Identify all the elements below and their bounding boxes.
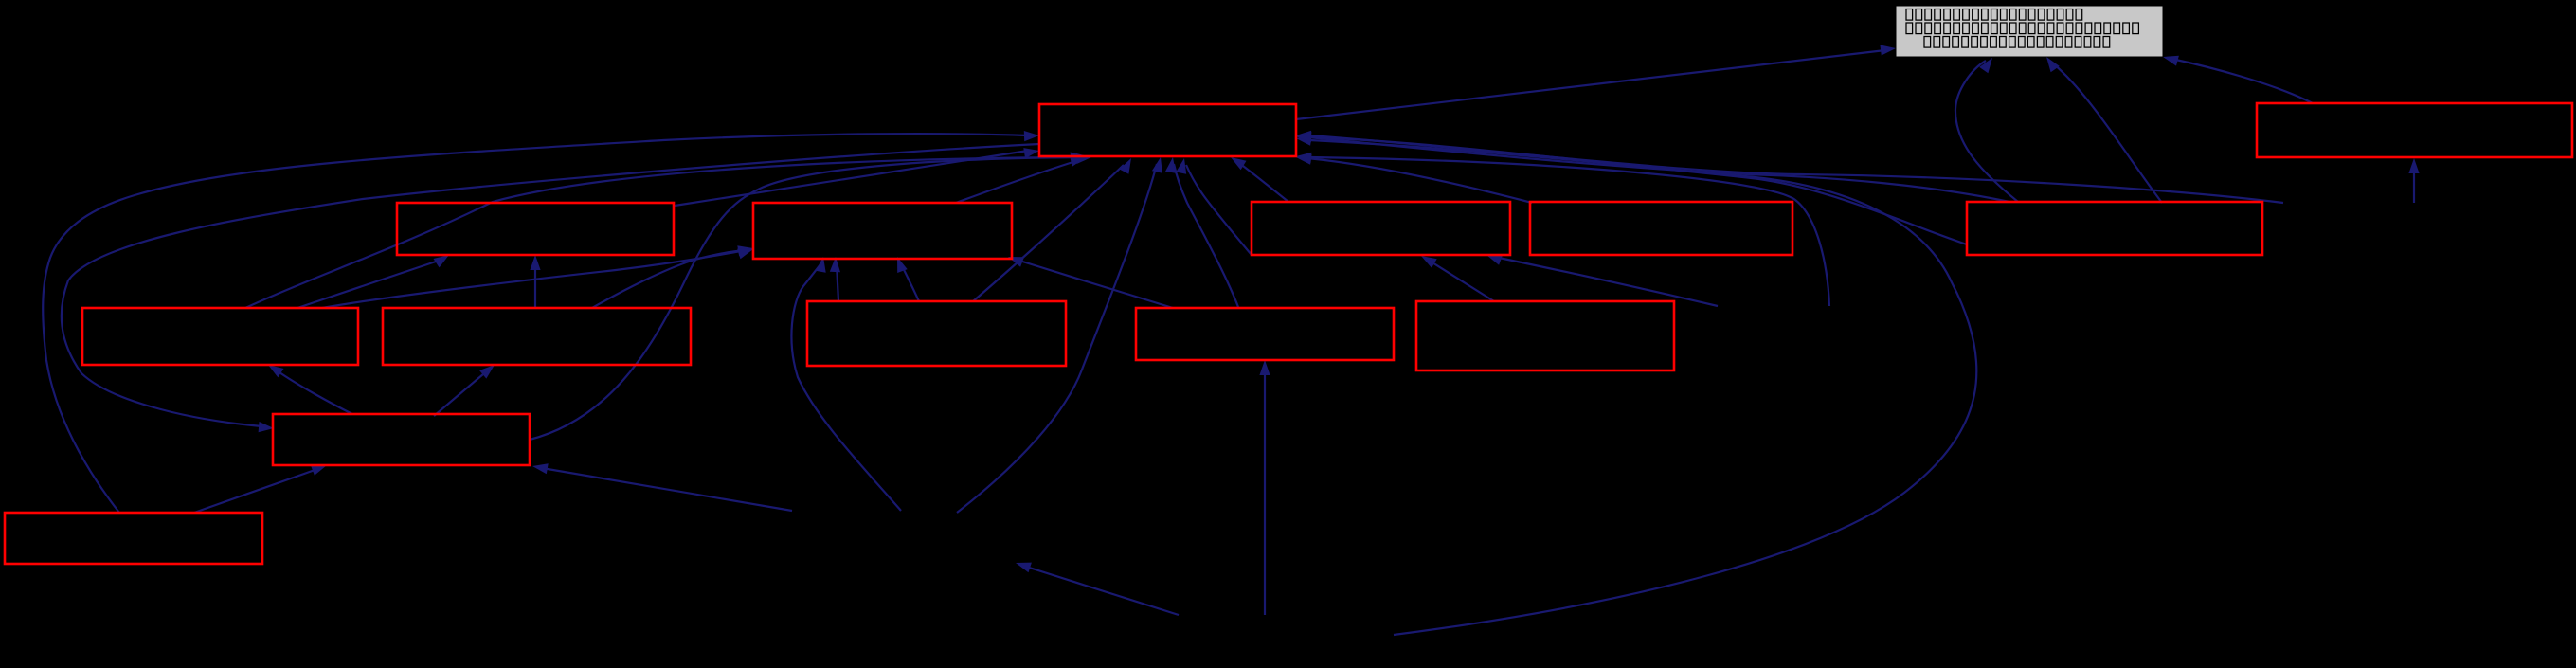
edge E->gray#2	[2046, 57, 2162, 203]
edge I->B	[1008, 257, 1173, 308]
node D	[1530, 202, 1792, 255]
edge M->central	[957, 157, 1162, 513]
node I	[1136, 308, 1394, 360]
edge K->G	[434, 365, 495, 416]
node central	[1039, 104, 1296, 156]
edge H->B#1	[830, 257, 840, 301]
edge D->central	[1296, 154, 1532, 203]
edge N->central	[1296, 153, 1829, 306]
edge A->central	[675, 148, 1039, 206]
edge I->central	[1165, 157, 1238, 307]
edge B->central	[956, 156, 1086, 203]
edge G->A	[530, 255, 540, 308]
edge K->central	[530, 153, 1086, 441]
edge R->M	[1016, 563, 1179, 615]
edge central->K	[62, 144, 1039, 432]
edge C->central#2	[1176, 158, 1252, 255]
edge G->B	[592, 249, 753, 308]
edge F->B	[322, 245, 753, 308]
edge L->K	[194, 465, 327, 513]
edge C->central	[1231, 157, 1288, 202]
edge E->central#2	[1296, 135, 1967, 244]
node F	[82, 308, 358, 365]
edge L->central	[43, 131, 1039, 513]
edge N->C	[1486, 255, 1718, 306]
node J	[1416, 301, 1674, 370]
node A	[397, 203, 674, 255]
edge S->rtop	[2408, 158, 2419, 203]
node C	[1252, 202, 1510, 255]
edge F->central	[245, 153, 1091, 308]
edge E->central#1	[1296, 132, 2009, 202]
node gray-label (truncated "...")	[1896, 6, 2163, 57]
edge R->central#2	[1296, 132, 1976, 635]
edge rtop->gray	[2163, 56, 2313, 103]
node rtop	[2257, 103, 2572, 157]
edge E->gray#1	[1955, 58, 2018, 202]
edge M->K	[532, 463, 792, 511]
edge K->F	[268, 365, 352, 414]
edge S->central	[1296, 131, 2283, 203]
edge M->B	[791, 257, 901, 511]
node B	[753, 203, 1012, 259]
edge R->I	[1259, 360, 1270, 615]
node K	[273, 414, 530, 465]
node H	[807, 301, 1066, 366]
edge J->C#1	[1421, 256, 1494, 301]
edge central->gray	[1296, 45, 1896, 119]
edge H->central	[973, 158, 1131, 301]
node G	[383, 308, 691, 365]
edge F->A	[297, 255, 449, 308]
node L	[5, 513, 262, 564]
edge H->B#2	[897, 257, 919, 301]
node E	[1967, 202, 2262, 255]
